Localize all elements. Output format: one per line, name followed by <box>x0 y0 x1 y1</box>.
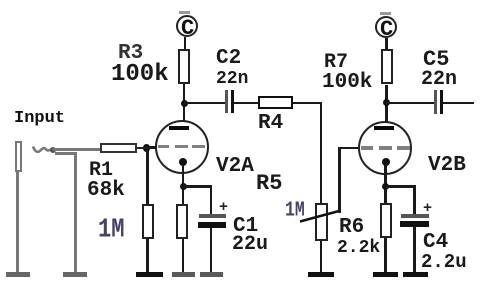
wire supply to R7 <box>385 38 388 49</box>
label 1M left <box>98 218 125 244</box>
label 100k <box>111 63 169 87</box>
supply terminal circle V2B stage (dash above) <box>380 12 391 15</box>
capacitor C5 <box>434 90 437 114</box>
plate bar V2B <box>374 126 394 130</box>
label C4 <box>423 232 448 253</box>
cathode dot V2A <box>179 158 187 166</box>
label C2 <box>216 48 241 69</box>
wire junction down to 1M resistor <box>146 150 149 204</box>
capacitor C1 top plate <box>199 214 226 218</box>
wire R7 to plate V2B <box>385 85 388 129</box>
ground 1M <box>136 272 163 278</box>
wire C5 output <box>443 102 474 105</box>
grid dashes V2B <box>361 146 373 150</box>
label 2.2u <box>421 253 467 272</box>
label 22u <box>232 235 268 255</box>
supply terminal circle V2B stage <box>375 16 397 38</box>
resistor R4 <box>258 96 293 109</box>
junction node jack tip <box>50 147 56 153</box>
wire cathode tee to C1 <box>183 185 211 188</box>
supply terminal circle V2A stage <box>176 15 198 37</box>
ground C1 <box>200 272 223 278</box>
wire wiper to grid V2B <box>338 147 359 150</box>
resistor 1M <box>142 204 154 239</box>
wire wiper up <box>338 147 341 213</box>
ground R5 <box>308 272 334 278</box>
junction node cathode V2A <box>180 183 187 190</box>
wire down to C4 <box>413 185 416 214</box>
wire 1M to ground <box>146 239 149 272</box>
capacitor C4 plus sign <box>423 201 432 216</box>
resistor R7 <box>381 49 393 84</box>
supply terminal circle V2A stage (dash above) <box>179 11 190 14</box>
ground C4 <box>403 272 428 278</box>
capacitor C4 bottom plate <box>400 221 429 227</box>
label R6 <box>339 217 364 238</box>
label 68k <box>87 180 125 201</box>
wire C2 to R4 <box>234 102 258 105</box>
ground jack sleeve <box>6 272 30 278</box>
label V2B <box>428 155 466 176</box>
wire R3 to plate of V2A <box>183 84 186 128</box>
junction node cathode V2B <box>382 183 389 190</box>
capacitor C1 bottom plate <box>198 222 226 228</box>
wire cathode resistor to ground <box>182 239 185 272</box>
resistor R1 <box>100 143 137 154</box>
wire jack sleeve down <box>16 172 19 272</box>
wire R1 to grid junction <box>137 147 147 150</box>
wire cathode V2A down <box>182 164 185 205</box>
label C1 <box>233 216 258 237</box>
grid wire junction node V2A <box>143 144 151 152</box>
label 2.2k <box>337 239 380 257</box>
ground R6 <box>373 272 398 278</box>
resistor R6 <box>380 203 392 238</box>
label 100k right <box>322 72 372 93</box>
junction node plate V2A <box>181 100 188 107</box>
ground shorting contact <box>63 272 87 278</box>
wire jack tip to R1 <box>53 148 100 151</box>
wire R5 to ground <box>320 241 323 272</box>
triode V2B envelope <box>358 121 412 175</box>
label 22n <box>216 70 248 88</box>
supply letter C <box>181 18 194 40</box>
supply letter C right <box>380 19 393 41</box>
resistor R3 <box>178 49 190 84</box>
wire R4 to pot corner <box>293 102 322 105</box>
wire cathode V2B down <box>384 165 387 206</box>
label Input <box>14 110 65 127</box>
wire supply to R3 <box>184 37 187 49</box>
wire C1 to ground <box>210 228 213 272</box>
potentiometer R5 body <box>315 203 328 241</box>
label C5 <box>423 49 449 71</box>
wire plate junction to C5 <box>386 102 434 105</box>
capacitor C2 <box>225 90 228 113</box>
label V2A <box>216 156 254 177</box>
wire R6 to ground <box>384 238 387 272</box>
grid dashes V2A <box>158 145 169 149</box>
label R3 <box>118 43 143 64</box>
label R4 <box>258 113 283 134</box>
wire shorting contact <box>55 152 76 155</box>
wire shorting contact down <box>74 152 77 272</box>
junction node plate V2B <box>383 99 390 106</box>
input jack sleeve rectangle <box>15 141 22 172</box>
label R1 <box>89 161 113 181</box>
wire down to pot R5 <box>320 102 323 204</box>
label 1M right <box>285 201 305 222</box>
triode V2A envelope <box>155 120 209 174</box>
wire down to C1 <box>210 185 213 214</box>
cathode resistor V2A <box>176 204 188 239</box>
wire C4 to ground <box>413 227 416 272</box>
wire junction to grid <box>146 146 156 149</box>
ground cathode resistor V2A <box>172 272 195 278</box>
label 22n right <box>421 70 457 90</box>
wire plate junction to C2 <box>184 102 225 105</box>
cathode dot V2B <box>382 158 390 166</box>
capacitor C1 plus sign <box>219 200 228 215</box>
plate bar V2A <box>169 126 189 130</box>
label R5 <box>256 173 282 195</box>
label R7 <box>324 53 348 73</box>
wire cathode tee to C4 <box>386 185 416 188</box>
capacitor C4 top plate <box>401 214 429 218</box>
